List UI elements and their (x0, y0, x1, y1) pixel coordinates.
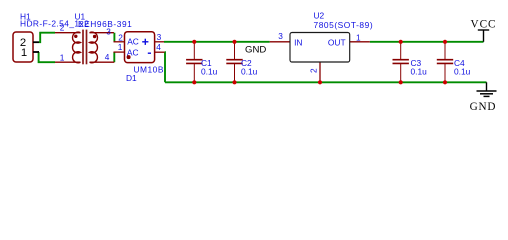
svg-text:2: 2 (118, 32, 123, 42)
svg-text:1: 1 (356, 32, 361, 42)
svg-text:3: 3 (157, 32, 162, 42)
svg-text:0.1u: 0.1u (411, 67, 428, 77)
svg-text:EEH96B-391: EEH96B-391 (78, 19, 132, 29)
svg-text:0.1u: 0.1u (241, 67, 258, 77)
svg-text:GND: GND (245, 44, 266, 55)
svg-text:0.1u: 0.1u (454, 67, 471, 77)
svg-text:3: 3 (106, 27, 111, 37)
svg-text:UM10B: UM10B (134, 65, 164, 75)
svg-text:4: 4 (105, 52, 110, 62)
svg-text:1: 1 (60, 53, 65, 63)
svg-text:IN: IN (294, 37, 302, 47)
svg-text:4: 4 (156, 42, 161, 52)
svg-text:2: 2 (60, 23, 65, 33)
svg-text:AC: AC (127, 37, 139, 47)
svg-text:GND: GND (470, 101, 497, 113)
svg-text:OUT: OUT (328, 37, 346, 47)
svg-text:VCC: VCC (470, 19, 496, 31)
svg-text:7805(SOT-89): 7805(SOT-89) (314, 20, 374, 30)
svg-text:1: 1 (21, 47, 27, 59)
svg-text:D1: D1 (126, 73, 137, 83)
svg-text:0.1u: 0.1u (201, 67, 218, 77)
svg-text:2: 2 (308, 68, 318, 73)
svg-text:1: 1 (118, 42, 123, 52)
svg-text:3: 3 (278, 31, 283, 41)
